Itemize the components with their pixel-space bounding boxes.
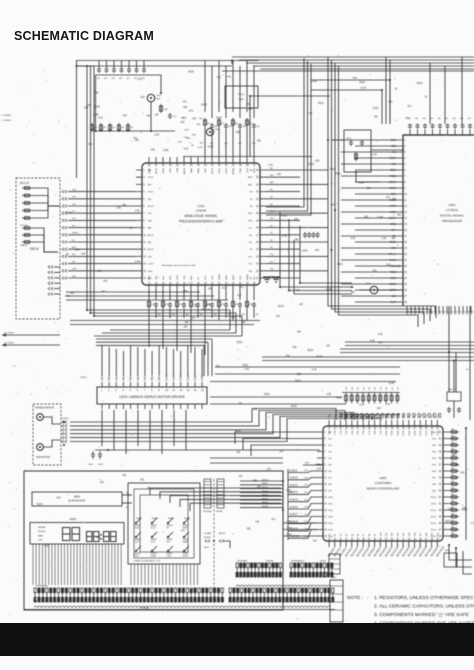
svg-text:KEY: KEY [305, 463, 310, 465]
svg-text:S4: S4 [346, 533, 348, 536]
U101 left pin numbers [143, 170, 146, 280]
svg-text:36: 36 [256, 170, 259, 172]
svg-text:PD5: PD5 [432, 465, 437, 467]
wire drop from top bus to U101 pin 37 [253, 66, 255, 118]
wire U101 bottom pin 26 drop [253, 291, 255, 300]
svg-text:PD8: PD8 [432, 484, 437, 486]
svg-text:2.2K: 2.2K [382, 238, 387, 240]
svg-text:U101: U101 [197, 204, 205, 208]
svg-text:38: 38 [439, 458, 442, 460]
svg-text:LC78212: LC78212 [446, 208, 459, 212]
svg-text:P60: P60 [363, 430, 365, 435]
svg-text:R210: R210 [188, 72, 194, 74]
svg-text:RAND: RAND [183, 540, 189, 543]
U101 bottom pin row (pins 11-26) [149, 285, 254, 291]
svg-text:RFI: RFI [72, 254, 76, 256]
U801 top pin numbers [328, 428, 440, 430]
connector W802 box [330, 580, 343, 622]
svg-text:102: 102 [453, 118, 456, 120]
svg-text:16: 16 [404, 230, 407, 232]
svg-text:ALP/BU: ALP/BU [204, 536, 211, 539]
svg-text:P20: P20 [340, 430, 342, 435]
svg-text:19: 19 [404, 248, 407, 250]
U101 right pin names inside body [248, 170, 253, 280]
svg-text:RFIN: RFIN [163, 168, 165, 174]
svg-text:V9M: V9M [159, 376, 161, 381]
wire S-KEY9 to U801 [288, 523, 317, 531]
connector CN101 pin 14 [62, 269, 67, 272]
svg-text:FO+: FO+ [248, 256, 253, 258]
svg-text:15: 15 [404, 224, 407, 226]
svg-text:10K: 10K [221, 123, 225, 125]
wire U201 pin 13 riser [187, 345, 189, 376]
svg-text:4.7K: 4.7K [65, 296, 70, 298]
svg-text:24: 24 [339, 428, 342, 430]
svg-text:40: 40 [431, 428, 434, 430]
wire U201 pin 6 riser [137, 347, 139, 376]
svg-text:P80: P80 [375, 430, 377, 435]
svg-text:VCC: VCC [238, 143, 242, 145]
wire cap C10 stub [98, 61, 100, 68]
svg-text:SENS: SENS [219, 274, 221, 280]
svg-text:37: 37 [253, 165, 256, 167]
svg-text:10K: 10K [242, 322, 247, 324]
svg-text:2.2K: 2.2K [116, 208, 121, 210]
wire U201 pin 9 riser [158, 345, 160, 376]
wire C159 down [211, 308, 213, 318]
svg-text:ASFS: ASFS [390, 211, 397, 214]
pad P913 above U801 [408, 414, 410, 418]
svg-text:220: 220 [397, 215, 402, 217]
capacitor C22 cluster [311, 232, 315, 238]
resistor R28 under U101 [204, 300, 207, 308]
svg-text:ISET: ISET [191, 274, 193, 280]
svg-text:FSEQ: FSEQ [389, 175, 396, 178]
svg-text:1K: 1K [395, 88, 398, 90]
wire X801 down [453, 401, 455, 418]
svg-text:22: 22 [256, 271, 259, 273]
wire cap C16 stub [143, 61, 145, 68]
svg-text:2.2K: 2.2K [326, 394, 331, 396]
svg-text:102: 102 [460, 118, 463, 120]
svg-text:48: 48 [176, 165, 179, 167]
switch SW88 (key) [183, 532, 189, 538]
svg-text:SL-: SL- [270, 233, 273, 235]
wire drop from top bus to U101 pin 44 [204, 61, 206, 113]
svg-text:220: 220 [181, 122, 186, 124]
wire SEG bus line 4 [240, 491, 283, 493]
bottom black film bar [0, 623, 474, 656]
svg-text:1uF: 1uF [377, 408, 382, 410]
svg-text:SRCH: SRCH [212, 168, 214, 175]
svg-text:R210: R210 [291, 406, 297, 408]
svg-text:2.2K: 2.2K [304, 470, 309, 472]
svg-text:1uF: 1uF [237, 295, 242, 297]
U101 right pin numbers [256, 170, 259, 280]
svg-text:24: 24 [256, 256, 259, 258]
wire U201 pin 5 riser [130, 345, 132, 376]
wire U101 right drop 1 [280, 212, 352, 287]
pad P915 above U801 [418, 414, 420, 418]
wire R87 to U801 [385, 415, 387, 420]
wire U201 bottom pin 0 drop [101, 410, 103, 446]
wire U101 right pin 31 out [266, 205, 300, 207]
wire U201 pin 11 riser [173, 349, 175, 376]
wire to U301 pin 8 [355, 181, 398, 183]
resistor R854 at U801 right [449, 457, 459, 460]
svg-text:C145: C145 [359, 182, 365, 184]
svg-text:102: 102 [415, 118, 418, 120]
svg-text:P30: P30 [346, 430, 348, 435]
svg-text:1uF: 1uF [81, 254, 86, 256]
wire C1511 down [225, 308, 227, 318]
svg-text:16.9M: 16.9M [360, 88, 366, 90]
svg-text:102: 102 [468, 118, 471, 120]
svg-text:V5M: V5M [131, 376, 133, 381]
wire mid band lower 2 [94, 335, 242, 337]
IC U201 body (LA6541D servo motor driver) [97, 387, 207, 404]
wire CN101 pin 8 to U101 [68, 227, 136, 229]
svg-text:104: 104 [186, 314, 189, 316]
U301 left pin numbers [404, 140, 407, 304]
svg-text:VCC: VCC [148, 213, 153, 215]
svg-text:R210: R210 [242, 365, 248, 367]
svg-text:34: 34 [396, 428, 399, 430]
arrow head left edge 1 [2, 333, 6, 336]
component value annotations panel area [37, 475, 276, 547]
svg-text:104: 104 [200, 314, 203, 316]
resistor R86 array [379, 393, 382, 404]
svg-text:44: 44 [204, 165, 207, 167]
component value annotations under U101 [183, 287, 303, 329]
svg-text:R123: R123 [330, 169, 336, 171]
svg-text:0.01: 0.01 [98, 118, 103, 120]
IC U801 body (LC6S7306A micro-controller) [323, 426, 443, 541]
svg-text:X-BS: X-BS [38, 540, 43, 542]
U101 top pin row (pins 52-37) [149, 157, 254, 163]
svg-text:APTR: APTR [390, 205, 397, 208]
svg-text:1K: 1K [147, 488, 150, 490]
svg-text:30: 30 [256, 213, 259, 215]
svg-text:1. RESISTORS, UNLESS OTHERWISE: 1. RESISTORS, UNLESS OTHERWISE SPECIFIE [374, 595, 474, 601]
svg-text:AIN: AIN [148, 227, 152, 230]
svg-text:SW801: SW801 [136, 518, 142, 520]
wire top-right bus line 3 [246, 62, 474, 64]
svg-text:SL-: SL- [249, 235, 253, 237]
svg-text:⊂ T.ZERO: ⊂ T.ZERO [1, 119, 11, 122]
svg-text:2. ALL CERAMIC CAPACITORS, UNL: 2. ALL CERAMIC CAPACITORS, UNLESS OTHE [374, 604, 474, 610]
svg-text:13: 13 [187, 390, 190, 392]
svg-text:34: 34 [256, 184, 259, 186]
svg-text:29: 29 [256, 220, 259, 222]
svg-text:33K: 33K [122, 205, 127, 207]
svg-text:TFO: TFO [72, 197, 77, 199]
svg-text:2.2K: 2.2K [184, 137, 189, 139]
svg-text:V11M: V11M [174, 375, 176, 381]
LCD colon [100, 534, 101, 540]
wire CN101 pin 15 to U101 [68, 277, 136, 279]
wire mid horizontal bus 4 [210, 396, 342, 398]
svg-text:10K: 10K [248, 109, 253, 111]
connector CN101 pin 13 [62, 262, 67, 265]
svg-text:220: 220 [141, 97, 146, 99]
wire to U301 pin 18 [355, 241, 398, 243]
svg-text:XOUT: XOUT [389, 157, 396, 160]
svg-text:104: 104 [257, 126, 260, 128]
svg-text:33K: 33K [295, 240, 300, 242]
svg-text:2.2K: 2.2K [103, 127, 107, 129]
wire C157 down [197, 308, 199, 318]
svg-text:26: 26 [404, 290, 407, 292]
svg-text:SE: SE [250, 206, 253, 208]
svg-text:PD10: PD10 [431, 497, 437, 499]
svg-text:S18: S18 [426, 532, 428, 537]
svg-text:R123: R123 [278, 306, 284, 308]
svg-text:SEG26: SEG26 [262, 498, 268, 500]
wire R88 to U801 [391, 415, 393, 420]
capacitor C35 above U301 [446, 124, 450, 129]
svg-text:S-KEY6: S-KEY6 [290, 507, 299, 509]
wire key scan line 2 [160, 492, 281, 499]
wire long bus under U301 no.4 [262, 360, 474, 362]
svg-text:0.01: 0.01 [378, 334, 383, 336]
svg-text:SW803: SW803 [168, 518, 174, 520]
svg-text:P22: P22 [431, 413, 435, 418]
wire left bus top link [77, 65, 95, 67]
svg-text:VC: VC [198, 277, 200, 280]
motor connector CN501 pin 2 [62, 425, 67, 428]
wire top-right bus line 1 [232, 56, 474, 58]
component value annotations deck area [65, 205, 141, 298]
wire mid-right bus drop 2 [429, 309, 431, 321]
svg-text:20: 20 [404, 254, 407, 256]
svg-text:1K: 1K [191, 145, 194, 147]
svg-text:15: 15 [143, 271, 146, 273]
svg-text:2.2K: 2.2K [121, 127, 125, 129]
svg-text:470: 470 [375, 387, 377, 390]
svg-text:S-KEY3: S-KEY3 [290, 485, 299, 487]
svg-text:473: 473 [127, 78, 130, 80]
svg-text:3: 3 [404, 152, 406, 154]
svg-text:14: 14 [324, 497, 327, 499]
capacitor C36 above U301 [453, 124, 457, 129]
svg-text:33: 33 [256, 192, 259, 194]
svg-text:ANALOGUE SIGNAL: ANALOGUE SIGNAL [184, 214, 217, 218]
wire U101 right drop 2 [289, 219, 352, 291]
wire under-U101 link 4 [70, 320, 260, 322]
wire S-KEY4 to U801 [288, 491, 317, 495]
wire S-KEY3 to U801 [288, 484, 317, 487]
wire crystal box bottom exit [356, 172, 380, 182]
wire to U301 pin 2 [355, 145, 398, 147]
wire mech stub [224, 541, 230, 548]
wire U201 pin 3 riser [115, 349, 117, 376]
svg-text:C216: C216 [181, 118, 187, 120]
wire cap C13 stub [121, 61, 123, 68]
spindle motor M501 (circle) [37, 414, 44, 421]
resistor R858 at U801 right [449, 483, 459, 486]
svg-text:1uF: 1uF [299, 304, 304, 306]
svg-text:TR+: TR+ [270, 269, 275, 271]
capacitor C504 [91, 451, 95, 459]
wire mid band extra bend 2 [203, 345, 205, 376]
svg-text:S11: S11 [386, 532, 388, 536]
svg-text:470: 470 [386, 387, 388, 390]
svg-text:10: 10 [143, 235, 146, 237]
svg-text:Q101: Q101 [156, 95, 162, 97]
svg-text:41: 41 [225, 165, 228, 167]
svg-text:VCC: VCC [210, 143, 214, 145]
svg-text:BOUT: BOUT [148, 249, 155, 251]
svg-text:FEO: FEO [270, 211, 275, 213]
wire EL- lead [122, 502, 132, 504]
svg-text:330: 330 [460, 472, 465, 474]
svg-text:C145: C145 [135, 261, 141, 263]
svg-text:JP+: JP+ [270, 240, 274, 242]
wire mid horizontal bus 3 [210, 381, 396, 383]
svg-text:32: 32 [256, 199, 259, 201]
connector W803 pin 1 [329, 558, 340, 560]
connector W801 box [444, 553, 457, 567]
wire mid-right bus drop 1 [435, 306, 437, 318]
wire centre bus vertical 3 [266, 64, 311, 215]
wire CN101 pin 6 to U101 [68, 212, 136, 214]
capacitor C153 under U101 [168, 302, 172, 308]
U101 top pin numbers [148, 165, 256, 167]
wire C151 down [155, 308, 157, 318]
wire U101 bottom pin 23 drop [232, 291, 234, 300]
svg-text:S12: S12 [392, 532, 394, 537]
svg-text:P130: P130 [403, 430, 405, 436]
svg-text:P170: P170 [426, 430, 428, 436]
connector W506 pad grid (right section) [229, 588, 334, 602]
svg-text:330: 330 [257, 141, 262, 143]
svg-text:SCAN: SCAN [151, 554, 157, 557]
svg-text:V7M: V7M [145, 376, 147, 381]
wire SEG bus line 8 [240, 507, 283, 509]
svg-text:470: 470 [369, 387, 371, 390]
svg-text:C216: C216 [94, 106, 100, 108]
svg-text:102: 102 [253, 409, 258, 411]
svg-text:2.2K: 2.2K [112, 127, 116, 129]
capacitor C115 on U101 top pin 37 [252, 123, 256, 129]
svg-text:COUT: COUT [148, 264, 155, 266]
LCD small digit 1 (8) [87, 532, 93, 542]
wire mid band extra bend 1 [207, 342, 209, 376]
capacitor C1511 under U101 [224, 302, 228, 308]
svg-text:VGA: VGA [176, 167, 179, 172]
svg-text:CEO: CEO [72, 269, 77, 271]
U201 pin numbers [101, 390, 204, 392]
wire panel COM line 3 [283, 535, 317, 537]
svg-text:5: 5 [130, 390, 132, 392]
ground symbol cluster near U101 lower right [263, 277, 280, 282]
svg-text:27: 27 [256, 235, 259, 237]
svg-text:BIN: BIN [148, 242, 152, 244]
wire resistor row bottom rail [342, 414, 400, 416]
resistor R112 on U101 top pin 40 [232, 118, 235, 127]
svg-text:PD6: PD6 [432, 471, 437, 473]
component box near X301 crystal circuit [344, 130, 371, 172]
resistor R8513 at U801 right [449, 515, 459, 518]
svg-text:102: 102 [438, 118, 441, 120]
resistor R105 [160, 104, 163, 113]
svg-text:470: 470 [358, 387, 360, 390]
svg-text:R210: R210 [417, 83, 423, 85]
svg-text:U201 LA6541D SERVO MOTOR DRIVE: U201 LA6541D SERVO MOTOR DRIVER [119, 395, 185, 399]
svg-text:0.01: 0.01 [56, 497, 61, 499]
svg-text:2.2K: 2.2K [317, 468, 322, 470]
wire U101 bottom pin 22 drop [225, 291, 227, 300]
svg-text:VEO: VEO [72, 276, 77, 278]
wire mid horizontal bus 2 [215, 373, 400, 375]
svg-text:38: 38 [419, 428, 422, 430]
wire mid-right bus vertical 3 [335, 63, 424, 312]
svg-text:220: 220 [279, 451, 284, 453]
svg-text:W801: W801 [445, 550, 450, 552]
svg-text:V3M: V3M [116, 376, 118, 381]
svg-text:P90: P90 [380, 430, 382, 435]
svg-text:PDO: PDO [391, 139, 396, 142]
svg-text:2: 2 [404, 146, 406, 148]
resistor R88 array [390, 393, 393, 404]
svg-text:473: 473 [104, 78, 107, 80]
wire top-right bus line 2 [239, 59, 474, 61]
switch SW87 (key) [167, 532, 173, 538]
component value annotations U801 right area [445, 455, 474, 525]
capacitor C111 on U101 top pin 41 [224, 123, 228, 129]
resistor R18 on U101 top pin 44 [204, 118, 207, 127]
svg-text:102: 102 [423, 118, 426, 120]
pad P95 above U801 [366, 414, 368, 418]
svg-text:6: 6 [404, 170, 406, 172]
svg-text:EL BACKLIGHT: EL BACKLIGHT [68, 500, 86, 503]
wire R84 to U801 [368, 415, 370, 420]
crystal X801 box [447, 392, 461, 401]
wire U101 bottom pin 17 drop [190, 291, 192, 300]
resistor R89 array [396, 393, 399, 404]
wire U101 bottom pin 13 drop [162, 291, 164, 300]
wire vertical drop to U301 top 2 [389, 60, 391, 124]
svg-text:1K: 1K [239, 403, 242, 405]
svg-text:103: 103 [155, 115, 160, 117]
wire drop from top bus to U101 pin 39 [239, 66, 241, 118]
resistor R850 at U801 right [449, 431, 459, 434]
svg-text:RFO: RFO [170, 168, 172, 173]
svg-text:C145: C145 [326, 289, 332, 291]
svg-text:R210: R210 [445, 521, 451, 523]
svg-text:10K: 10K [96, 537, 101, 539]
svg-text:104: 104 [178, 141, 182, 143]
svg-text:W503B: W503B [216, 511, 223, 513]
U801 right pin numbers [439, 432, 442, 538]
svg-text:PICK UP: PICK UP [20, 183, 30, 185]
svg-text:1uF: 1uF [239, 476, 244, 478]
wire right edge bus [465, 428, 467, 540]
inductor L212 in deck [22, 241, 32, 244]
svg-text:11: 11 [324, 478, 327, 480]
svg-text:4.7K: 4.7K [244, 369, 249, 371]
wire U201 bottom pin 4 drop [149, 410, 151, 450]
svg-text:SENS: SENS [389, 283, 396, 286]
svg-text:5: 5 [324, 439, 326, 441]
U101 bottom pin signal names inside body [149, 274, 256, 280]
wire U201 pin 8 riser [151, 351, 153, 376]
svg-text:SEG24: SEG24 [262, 491, 268, 493]
svg-text:2.2K: 2.2K [304, 485, 309, 487]
wire mid band lower 1 [102, 332, 236, 334]
resistor R8516 at U801 right [449, 535, 459, 538]
